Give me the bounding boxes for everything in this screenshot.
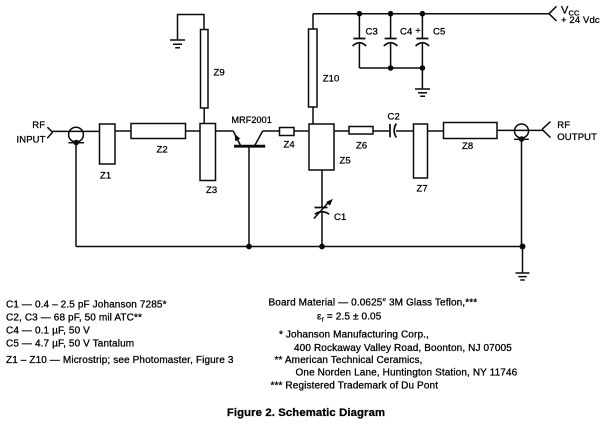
svg-text:Z6: Z6 — [356, 140, 367, 151]
svg-text:MRF2001: MRF2001 — [232, 115, 272, 125]
svg-text:Z7: Z7 — [417, 184, 428, 195]
svg-text:Board Material — 0.0625″ 3M Gl: Board Material — 0.0625″ 3M Glass Teflon… — [269, 298, 478, 309]
svg-text:Z3: Z3 — [206, 185, 217, 196]
svg-text:C1 — 0.4 – 2.5 pF Johanson 728: C1 — 0.4 – 2.5 pF Johanson 7285* — [6, 300, 167, 311]
svg-text:Z1: Z1 — [100, 171, 111, 182]
svg-text:Z8: Z8 — [462, 141, 473, 152]
svg-text:INPUT: INPUT — [16, 135, 45, 146]
svg-text:C4 — 0.1 µF, 50 V: C4 — 0.1 µF, 50 V — [6, 326, 90, 337]
svg-text:RF: RF — [32, 120, 45, 131]
svg-text:C3: C3 — [366, 27, 378, 38]
svg-text:C5: C5 — [433, 27, 445, 38]
svg-text:RF: RF — [557, 120, 570, 131]
svg-text:Z10: Z10 — [323, 73, 340, 84]
svg-text:Z9: Z9 — [214, 67, 225, 78]
svg-text:One Norden Lane, Huntington St: One Norden Lane, Huntington Station, NY … — [296, 368, 518, 379]
svg-text:C4: C4 — [400, 27, 412, 38]
svg-text:Z5: Z5 — [340, 156, 351, 167]
svg-text:+: + — [415, 26, 421, 37]
svg-text:Figure 2. Schematic Diagram: Figure 2. Schematic Diagram — [227, 407, 385, 419]
svg-text:** American Technical Ceramics: ** American Technical Ceramics, — [275, 355, 423, 366]
svg-text:Z2: Z2 — [157, 145, 168, 156]
svg-text:Z1 – Z10 — Microstrip; see Pho: Z1 – Z10 — Microstrip; see Photomaster, … — [6, 355, 234, 366]
svg-text:Z4: Z4 — [284, 140, 295, 151]
svg-text:* Johanson Manufacturing Corp.: * Johanson Manufacturing Corp., — [279, 330, 429, 341]
svg-text:C2, C3 — 68 pF, 50 mil ATC**: C2, C3 — 68 pF, 50 mil ATC** — [6, 313, 142, 324]
svg-text:C1: C1 — [334, 212, 346, 223]
svg-text:OUTPUT: OUTPUT — [557, 132, 597, 143]
svg-text:*** Registered Trademark of Du: *** Registered Trademark of Du Pont — [271, 381, 439, 392]
svg-text:400 Rockaway Valley Road, Boon: 400 Rockaway Valley Road, Boonton, NJ 07… — [294, 343, 512, 354]
svg-text:C2: C2 — [388, 112, 400, 123]
svg-text:C5 — 4.7 µF, 50 V Tantalum: C5 — 4.7 µF, 50 V Tantalum — [6, 339, 134, 350]
svg-text:εr = 2.5 ± 0.05: εr = 2.5 ± 0.05 — [317, 312, 382, 324]
svg-text:+ 24 Vdc: + 24 Vdc — [561, 15, 600, 26]
